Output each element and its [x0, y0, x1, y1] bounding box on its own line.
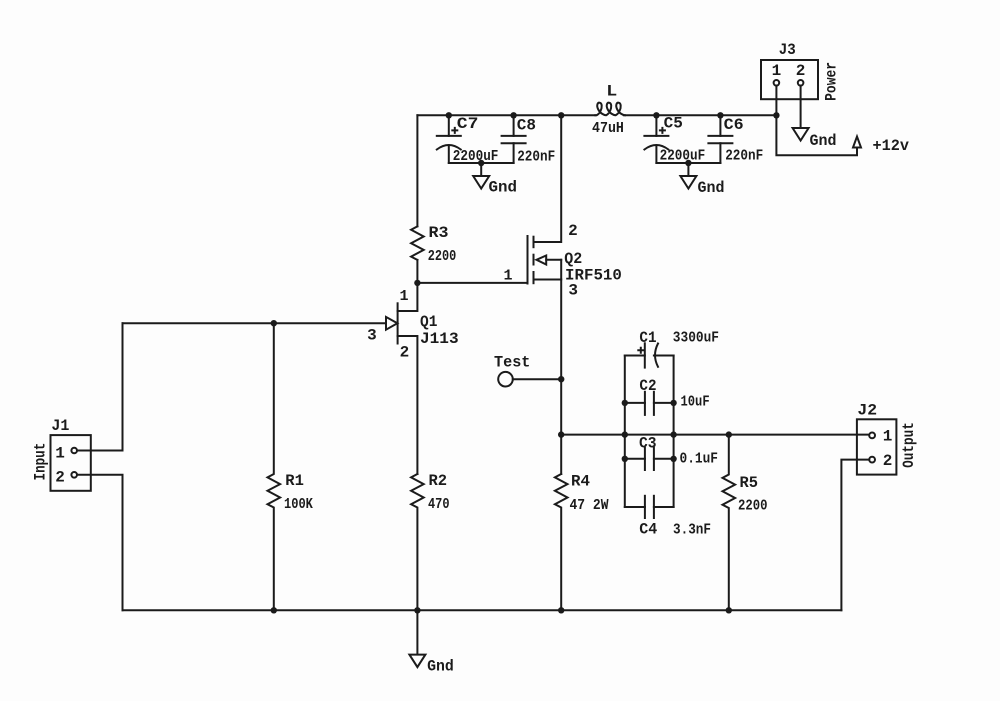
svg-text:Gnd: Gnd	[427, 658, 454, 676]
resistor R4 47 2W	[555, 474, 568, 610]
svg-text:Gnd: Gnd	[810, 132, 837, 150]
svg-text:3: 3	[367, 327, 377, 345]
svg-text:R3: R3	[429, 224, 449, 242]
svg-text:220nF: 220nF	[725, 148, 763, 165]
resistor R1 100K	[268, 323, 281, 610]
node: gate line / R1 junction	[271, 320, 277, 326]
wire: bottom ground rail	[123, 609, 842, 611]
wire: Q1 gate line	[123, 322, 386, 324]
node: R3/Q1/Q2-gate junction	[414, 280, 420, 286]
ground symbol below C5/C6	[680, 163, 696, 189]
node: C2 left	[622, 400, 628, 406]
wire: C7/C8 ground bus	[449, 162, 514, 164]
svg-text:L: L	[606, 82, 617, 100]
node: C7/C8 bus junction	[478, 160, 484, 166]
svg-text:J2: J2	[857, 401, 877, 419]
connector J3	[761, 60, 818, 99]
capacitor C3 0.1uF	[625, 448, 674, 470]
ground symbol below C7/C8	[473, 163, 489, 189]
svg-text:J3: J3	[779, 41, 796, 59]
capacitor C8 220nF	[502, 115, 526, 163]
node: bottom rail R5	[726, 607, 732, 613]
svg-text:C5: C5	[664, 115, 683, 133]
node: main line / cap left rail	[622, 431, 628, 437]
svg-text:47 2W: 47 2W	[570, 497, 609, 514]
svg-text:2200uF: 2200uF	[660, 148, 706, 165]
svg-text:220nF: 220nF	[517, 149, 555, 166]
svg-text:Input: Input	[32, 443, 50, 481]
node: main line / cap right rail	[670, 431, 676, 437]
svg-text:C1: C1	[639, 329, 656, 347]
node: bottom rail R1	[271, 607, 277, 613]
transistor Q2 IRF510 n-mosfet	[528, 115, 562, 379]
svg-text:2: 2	[568, 222, 578, 240]
node: C3 right	[670, 456, 676, 462]
connector J2	[857, 419, 897, 474]
svg-text:3300uF: 3300uF	[673, 329, 719, 346]
svg-text:1: 1	[772, 62, 782, 80]
capacitor C4 3.3nF	[625, 496, 674, 518]
node: C2 right	[670, 400, 676, 406]
wire: Q2 source down through R4	[560, 379, 562, 474]
wire: top supply rail y=115.3 left segment	[417, 114, 595, 116]
capacitor C2 10uF	[625, 392, 674, 415]
wire: rail to +12v arrow	[776, 115, 857, 155]
wire: C5/C6 ground bus	[656, 162, 720, 164]
svg-text:1: 1	[399, 288, 408, 305]
node: main output junction at Q2 source column	[558, 431, 564, 437]
+12v supply arrow	[853, 137, 861, 148]
test point	[498, 372, 561, 387]
node: rail junction C6	[717, 112, 723, 118]
svg-text:470: 470	[428, 496, 450, 513]
node: rail junction C7	[446, 112, 452, 118]
capacitor C1 3300uF electrolytic	[625, 343, 674, 367]
node: rail junction J3 pin1	[773, 112, 779, 118]
svg-text:3.3nF: 3.3nF	[673, 522, 711, 539]
svg-text:47uH: 47uH	[592, 120, 624, 137]
svg-text:C4: C4	[639, 521, 657, 539]
node: rail junction Q2 drain	[558, 112, 564, 118]
wire: capacitor bank right rail	[673, 356, 675, 508]
svg-text:2: 2	[55, 469, 65, 487]
svg-text:Test: Test	[494, 354, 530, 372]
wire: J1 pin1 up to gate line	[77, 323, 123, 450]
svg-text:J113: J113	[420, 330, 459, 348]
ground symbol at bottom rail	[409, 610, 425, 667]
svg-text:2: 2	[883, 452, 893, 470]
capacitor C6 220nF	[708, 115, 732, 163]
svg-text:C6: C6	[724, 116, 744, 134]
resistor R2 470	[411, 474, 424, 610]
wire: J2 pin2 down to bottom rail	[841, 460, 869, 611]
wire: main output line to J2 pin1	[561, 434, 869, 436]
node: rail junction C5	[653, 112, 659, 118]
svg-text:Q2: Q2	[564, 250, 582, 268]
wire: capacitor bank left rail	[624, 356, 626, 508]
svg-text:Gnd: Gnd	[698, 179, 725, 197]
svg-text:Power: Power	[823, 62, 841, 101]
node: C5/C6 bus junction	[685, 160, 691, 166]
resistor R5 2200	[723, 435, 736, 611]
svg-text:0.1uF: 0.1uF	[680, 451, 719, 468]
node: main line / R5	[726, 431, 732, 437]
svg-text:C3: C3	[639, 434, 657, 452]
svg-text:100K: 100K	[284, 496, 313, 513]
svg-text:Output: Output	[900, 422, 918, 468]
node: rail junction C8	[510, 112, 516, 118]
capacitor C5 2200uF electrolytic	[644, 115, 668, 163]
node: C3 left	[622, 456, 628, 462]
svg-text:R4: R4	[571, 473, 590, 491]
svg-text:+12v: +12v	[873, 137, 910, 155]
svg-text:2: 2	[796, 62, 806, 80]
svg-text:R2: R2	[429, 472, 448, 490]
wire: top supply rail right of inductor	[624, 114, 777, 116]
svg-text:2200: 2200	[428, 248, 457, 265]
svg-text:J1: J1	[51, 417, 69, 435]
svg-text:10uF: 10uF	[681, 394, 710, 411]
wire: junction to Q2 gate	[417, 282, 527, 284]
node: bottom rail R4	[558, 607, 564, 613]
node: bottom rail R2	[414, 607, 420, 613]
inductor L (3 cursive loops)	[595, 103, 625, 116]
wire: J1 pin2 down to bottom rail	[77, 475, 123, 611]
svg-text:Q1: Q1	[420, 313, 437, 331]
svg-text:1: 1	[883, 428, 893, 446]
capacitor C7 2200uF electrolytic	[437, 115, 461, 163]
svg-text:2: 2	[400, 344, 410, 362]
wire: left column from rail down to R3	[416, 115, 418, 226]
transistor Q1 J113 jfet	[386, 283, 417, 474]
svg-text:1: 1	[503, 268, 512, 285]
svg-text:R1: R1	[285, 472, 304, 490]
svg-text:Gnd: Gnd	[489, 179, 518, 197]
wire: J3 pin2 to ground	[800, 86, 802, 128]
svg-text:3: 3	[568, 282, 578, 300]
node: test junction	[558, 376, 564, 382]
svg-text:C7: C7	[457, 115, 479, 133]
svg-text:C2: C2	[639, 377, 656, 395]
svg-text:1: 1	[55, 445, 65, 463]
svg-text:2200: 2200	[738, 498, 768, 515]
resistor R3 2200	[411, 226, 424, 260]
wire: R3 to junction	[416, 260, 418, 283]
wire: J3 pin1 to rail	[775, 86, 777, 116]
ground symbol at J3 pin2	[793, 128, 809, 141]
connector J1	[51, 435, 91, 491]
svg-text:R5: R5	[740, 474, 759, 492]
svg-text:C8: C8	[517, 117, 536, 135]
